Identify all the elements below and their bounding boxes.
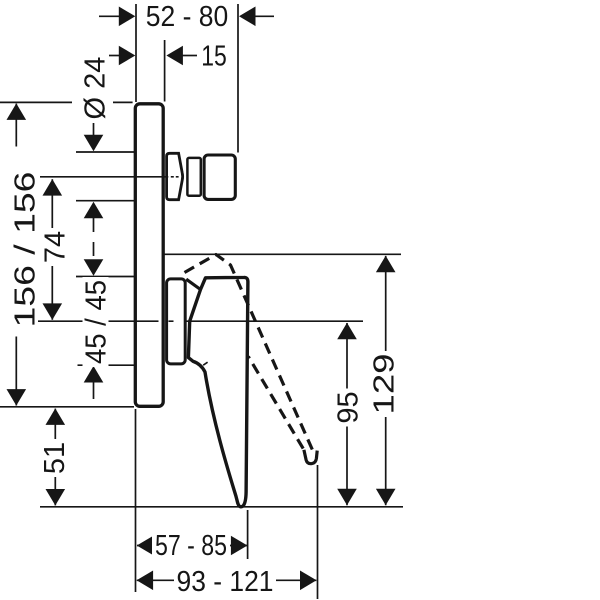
extension line knob tip (x=238) bbox=[237, 4, 239, 153]
center line pipe axis bbox=[40, 176, 168, 178]
center line pivot axis dot bbox=[169, 320, 174, 322]
svg-text:45 / 45: 45 / 45 bbox=[81, 280, 113, 364]
label 93-121 bbox=[174, 566, 276, 598]
connection middle ring bbox=[187, 158, 200, 196]
label 156/156 bbox=[10, 147, 42, 337]
svg-text:15: 15 bbox=[201, 41, 227, 73]
dimension 15 left arrow bbox=[109, 46, 135, 66]
dimension 129 top arrow bbox=[376, 256, 396, 273]
dimension D24 lower arrow + dashed tail bbox=[84, 202, 104, 260]
label 129 bbox=[369, 351, 401, 417]
dimension 57-85 line bbox=[137, 545, 247, 547]
dimension 93-121 line bbox=[137, 579, 316, 581]
extension line dashed-lever tip vertical (x=317.5) bbox=[317, 465, 319, 599]
lever tick mark bbox=[203, 362, 207, 365]
dimension D24 upper arrow bbox=[84, 123, 104, 151]
center line pivot axis bbox=[38, 320, 159, 322]
dimension 95 bottom arrow bbox=[337, 489, 357, 506]
svg-text:74: 74 bbox=[40, 231, 72, 263]
lever handle raised position (dashed) bbox=[185, 255, 313, 451]
dimension 93-121 left arrow bbox=[137, 571, 154, 591]
escutcheon plate bbox=[135, 104, 163, 407]
svg-text:52 - 80: 52 - 80 bbox=[146, 1, 229, 33]
extension line lever tip level (y=506.8) bbox=[40, 506, 403, 508]
dimension 45/45 lower arrow bbox=[84, 366, 104, 399]
label 57-85 bbox=[152, 530, 230, 562]
svg-text:51: 51 bbox=[39, 442, 71, 474]
lever neck top edge bbox=[186, 279, 200, 289]
extension line sleeve top (y=276.5) bbox=[76, 276, 135, 278]
extension line wall face bottom (x=135.5) bbox=[135, 409, 137, 592]
extension line knob bottom (y=200.7) bbox=[76, 200, 135, 202]
center line pipe axis end dash bbox=[176, 176, 179, 178]
connection end cap bbox=[204, 155, 235, 199]
svg-text:57 - 85: 57 - 85 bbox=[155, 530, 227, 562]
dimension 129 line bbox=[385, 256, 387, 505]
extension line cone face (x=165.6) bbox=[164, 40, 166, 102]
lever raised tip hook (dashed) bbox=[304, 450, 317, 464]
extension line unit bottom (y=406.8) bbox=[0, 406, 134, 408]
svg-text:95: 95 bbox=[333, 391, 365, 423]
extension line wall face top (x=136) bbox=[135, 4, 137, 102]
label 51 bbox=[39, 439, 71, 477]
svg-text:Ø 24: Ø 24 bbox=[80, 57, 112, 120]
dimension 52-80 left arrow bbox=[99, 6, 135, 26]
dimension 156/156 bottom arrow bbox=[6, 389, 26, 406]
label 45/45 bbox=[81, 277, 113, 367]
dimension 57-85 left arrow bbox=[137, 536, 154, 556]
extension line handle top (y=254.3) bbox=[165, 253, 402, 255]
center line pivot axis right part bbox=[186, 320, 363, 322]
extension line sleeve bottom (y=365.2) bbox=[78, 364, 135, 366]
dimension 51 bottom arrow bbox=[46, 489, 66, 506]
lever handle body bbox=[188, 277, 248, 506]
handle sleeve bbox=[167, 279, 186, 364]
extension line plate top (y=102.4) bbox=[0, 101, 72, 103]
dimension 52-80 right arrow bbox=[239, 6, 274, 26]
dimension 51 line bbox=[54, 409, 56, 506]
dimension 74 top arrow bbox=[43, 179, 63, 196]
label D24 bbox=[80, 57, 112, 120]
dimension 156/156 line bbox=[15, 104, 17, 406]
dimension 51 top arrow bbox=[46, 408, 66, 425]
dimension 15 right arrow bbox=[166, 46, 197, 66]
dimension 45/45 upper arrow bbox=[84, 259, 104, 276]
dimension 93-121 right arrow bbox=[300, 571, 317, 591]
dimension 74 bottom arrow bbox=[43, 303, 63, 320]
center line pipe axis dot bbox=[171, 176, 174, 178]
label 74 bbox=[40, 228, 72, 266]
dimension 57-85 right arrow bbox=[231, 536, 248, 556]
extension line lever tip vertical (x=247) bbox=[247, 510, 249, 559]
extension line knob top (y=152) bbox=[76, 151, 135, 153]
dimension 129 bottom arrow bbox=[376, 489, 396, 506]
lever raised left rail (dashed) bbox=[248, 357, 303, 449]
dimension 156/156 top arrow bbox=[6, 103, 26, 120]
connection cone bbox=[167, 153, 183, 199]
dimension 95 line bbox=[346, 323, 348, 505]
svg-text:93 - 121: 93 - 121 bbox=[177, 566, 274, 598]
label 95 bbox=[333, 389, 365, 427]
dimension 95 top arrow bbox=[337, 323, 357, 340]
svg-text:129: 129 bbox=[369, 354, 401, 415]
dimension 74 line bbox=[51, 179, 53, 319]
svg-text:156 / 156: 156 / 156 bbox=[10, 172, 42, 328]
